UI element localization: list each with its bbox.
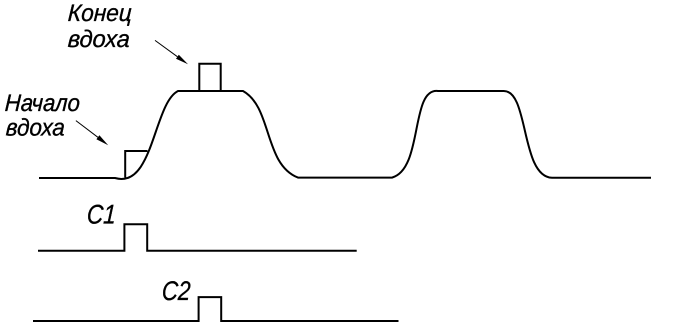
end-of-inhalation marker pulse bbox=[199, 64, 220, 92]
svg-text:Конец: Конец bbox=[67, 0, 132, 27]
label C1 bbox=[86, 200, 117, 230]
arrow to end-of-inhalation pulse bbox=[155, 40, 188, 64]
svg-text:C2: C2 bbox=[161, 276, 191, 306]
arrow to start-of-inhalation pulse bbox=[76, 121, 108, 146]
svg-text:C1: C1 bbox=[86, 200, 117, 230]
breathing waveform curve bbox=[39, 91, 651, 179]
start-of-inhalation marker pulse bbox=[125, 151, 147, 178]
signal C2 trace with pulse bbox=[33, 297, 399, 321]
label "Конец вдоха" bbox=[67, 0, 132, 53]
label C2 bbox=[161, 276, 191, 306]
svg-text:Начало: Начало bbox=[4, 90, 80, 117]
signal C1 trace with pulse bbox=[38, 224, 357, 250]
svg-text:вдоха: вдоха bbox=[67, 26, 130, 53]
label "Начало вдоха" bbox=[4, 90, 80, 141]
svg-text:вдоха: вдоха bbox=[5, 115, 65, 142]
